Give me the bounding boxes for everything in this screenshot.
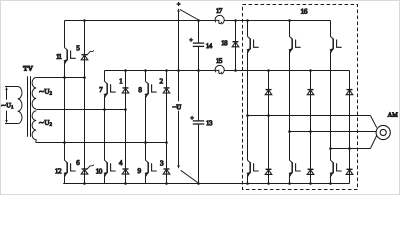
svg-text:9: 9 bbox=[138, 167, 142, 175]
svg-text:16: 16 bbox=[300, 7, 307, 16]
svg-text:∼U1: ∼U1 bbox=[1, 102, 14, 109]
svg-text:13: 13 bbox=[206, 119, 213, 127]
svg-text:4: 4 bbox=[119, 159, 123, 167]
svg-text:15: 15 bbox=[216, 57, 223, 65]
svg-text:17: 17 bbox=[216, 7, 223, 15]
svg-text:7: 7 bbox=[99, 86, 103, 94]
svg-text:11: 11 bbox=[56, 53, 62, 61]
svg-text:8: 8 bbox=[138, 86, 142, 94]
svg-text:TV: TV bbox=[23, 65, 33, 73]
svg-text:−U: −U bbox=[172, 103, 181, 111]
svg-text:+: + bbox=[190, 115, 194, 122]
svg-text:+: + bbox=[189, 37, 193, 44]
svg-text:14: 14 bbox=[206, 42, 213, 50]
svg-text:∼U2: ∼U2 bbox=[39, 88, 53, 97]
svg-text:1: 1 bbox=[119, 77, 123, 85]
svg-text:+: + bbox=[177, 1, 181, 8]
svg-text:∼U2: ∼U2 bbox=[39, 119, 53, 128]
svg-text:10: 10 bbox=[96, 167, 103, 175]
svg-text:3: 3 bbox=[160, 159, 164, 167]
svg-text:18: 18 bbox=[221, 39, 228, 47]
svg-text:AM: AM bbox=[388, 112, 399, 119]
svg-text:6: 6 bbox=[76, 159, 80, 167]
svg-text:2: 2 bbox=[159, 77, 163, 85]
svg-text:5: 5 bbox=[76, 44, 80, 52]
svg-text:12: 12 bbox=[55, 167, 62, 175]
